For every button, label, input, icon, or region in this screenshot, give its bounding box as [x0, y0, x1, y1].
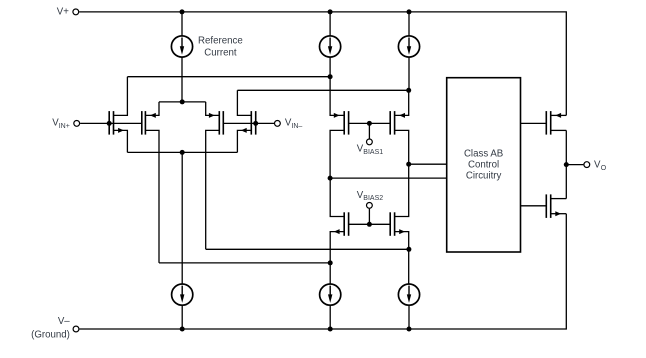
- wire output vertical: [565, 130, 567, 198]
- transistor Q6 (upper cascode right PMOS): [390, 90, 409, 164]
- current source I3 arrow: [408, 38, 410, 48]
- svg-text:Circuitry: Circuitry: [466, 170, 502, 181]
- node tail inner pair: [180, 99, 185, 104]
- wire output to terminal: [566, 164, 583, 166]
- transistor Q7 (lower cascode left NMOS): [330, 178, 348, 284]
- terminal VBIAS2: [367, 203, 373, 209]
- current sink S2: circle: [320, 284, 341, 305]
- node D junction: [406, 247, 411, 252]
- wire Q2 drain route to node C: [159, 262, 330, 264]
- svg-text:Control: Control: [468, 159, 499, 170]
- transistor Q5 (upper cascode left PMOS): [330, 77, 349, 178]
- wire tail of inner pair: [159, 101, 206, 103]
- svg-text:IN–: IN–: [291, 123, 302, 130]
- node top rail at current source I2: [328, 9, 333, 14]
- block Class AB Control Circuitry: [447, 78, 521, 252]
- wire box input 2: [330, 177, 447, 179]
- transistor Q1 (outer left NMOS): [109, 77, 127, 153]
- terminal V+: [73, 9, 79, 15]
- transistor Q2 (inner left PMOS): [142, 102, 159, 263]
- node output: [564, 162, 569, 167]
- wire box input 1: [409, 163, 447, 165]
- svg-text:V+: V+: [57, 7, 69, 18]
- current sink S3: circle: [398, 284, 419, 305]
- wire tail drop to sink 1: [181, 152, 183, 283]
- transistor Q9 (output PMOS): [546, 111, 566, 135]
- transistor Q3 (inner right PMOS): [206, 102, 224, 249]
- current sink S3 stub: [408, 306, 410, 330]
- current sink S1: circle: [172, 284, 193, 305]
- current source I3 circle: [398, 36, 419, 57]
- node top rail at ref current: [180, 9, 185, 14]
- node bottom rail at sink 2: [328, 327, 333, 332]
- svg-text:O: O: [601, 165, 607, 172]
- wire box to gate Q10: [521, 205, 547, 207]
- current source I2: stubs: [329, 12, 331, 77]
- terminal VBIAS1: [367, 139, 373, 145]
- wire box to gate Q9: [521, 122, 547, 124]
- svg-text:V–: V–: [58, 316, 70, 327]
- current source I2 circle: [320, 36, 341, 57]
- wire gates Q5 Q6 VBIAS1: [349, 122, 391, 124]
- wire M4 drain to cascode node B: [237, 89, 408, 91]
- current sink S1 arrow: [181, 286, 183, 296]
- current source I1 arrow: [181, 38, 183, 48]
- terminal V- (Ground): [73, 326, 79, 332]
- node gate VBIAS1: [367, 121, 372, 126]
- wire source rail of outer pair: [127, 151, 237, 153]
- current sink S2 stub: [329, 306, 331, 330]
- wire VIN- to gates of Q3 Q4: [223, 122, 274, 124]
- svg-text:Class AB: Class AB: [464, 148, 503, 159]
- current source I1 reference: stubs: [181, 12, 183, 102]
- wire Q3 drain route to node D: [206, 248, 409, 250]
- current sink S2 arrow: [329, 286, 331, 296]
- terminal VIN+: [74, 121, 80, 127]
- wire top rail V+: [79, 12, 566, 116]
- wire VBIAS1 stub: [368, 123, 370, 138]
- node bottom rail at sink 1: [180, 327, 185, 332]
- node source rail: [180, 150, 185, 155]
- node gate Q1: [107, 121, 112, 126]
- wire M1 drain to cascode node A: [127, 76, 330, 78]
- svg-text:BIAS2: BIAS2: [363, 195, 383, 202]
- current sink S1 stub: [181, 306, 183, 330]
- transistor Q10 (output NMOS): [546, 194, 566, 218]
- transistor Q8 (lower cascode right NMOS): [390, 164, 409, 284]
- node gate VBIAS2: [367, 222, 372, 227]
- svg-text:Current: Current: [204, 48, 237, 59]
- node Q6 drain / box input 1: [406, 162, 411, 167]
- transistor Q4 (outer right NMOS): [237, 90, 255, 152]
- svg-text:IN+: IN+: [59, 123, 70, 130]
- node top rail at current source I3: [407, 9, 412, 14]
- current source I1 circle: [171, 36, 192, 57]
- node gate Q4: [253, 121, 258, 126]
- wire VIN+ to gates of Q1 Q2: [80, 122, 142, 124]
- node A junction: [328, 74, 333, 79]
- node Q5 drain / box input 2: [328, 176, 333, 181]
- wire VBIAS2 stub: [368, 209, 370, 225]
- node C junction: [328, 260, 333, 265]
- wire gates Q7 Q8 VBIAS2: [349, 223, 391, 225]
- terminal VO: [584, 162, 590, 168]
- svg-text:Reference: Reference: [198, 36, 243, 47]
- wire bottom rail V-: [79, 214, 566, 329]
- svg-text:(Ground): (Ground): [31, 330, 70, 341]
- svg-text:BIAS1: BIAS1: [363, 149, 383, 156]
- node bottom rail at sink 3: [407, 327, 412, 332]
- node B junction: [406, 88, 411, 93]
- terminal VIN-: [275, 121, 281, 127]
- current sink S3 arrow: [408, 286, 410, 296]
- current source I3: stubs: [408, 12, 410, 90]
- current source I2 arrow: [329, 38, 331, 48]
